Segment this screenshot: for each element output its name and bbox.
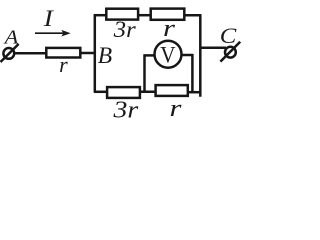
svg-text:I: I [43,7,55,32]
svg-text:r: r [170,94,182,121]
svg-text:B: B [98,43,112,69]
svg-text:A: A [2,26,19,49]
svg-text:V: V [160,41,175,67]
svg-text:C: C [220,24,237,49]
svg-text:r: r [163,14,175,41]
svg-text:3r: 3r [112,96,139,122]
svg-text:r: r [59,52,68,77]
svg-text:3r: 3r [113,18,137,43]
